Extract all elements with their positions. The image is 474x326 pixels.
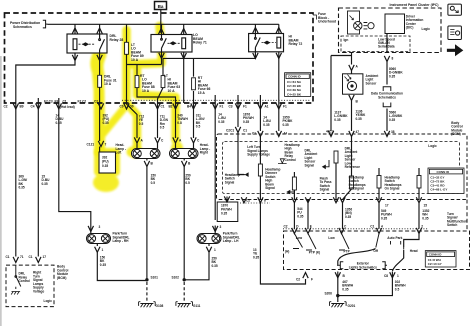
relay U3 HI BEAM Relay 72 bbox=[249, 34, 284, 52]
wire LO relay output bus bbox=[127, 52, 162, 65]
svg-text:C2: C2 bbox=[4, 105, 8, 109]
svg-text:1: 1 bbox=[214, 248, 216, 252]
svg-text:F1: F1 bbox=[220, 105, 224, 109]
wire to switch E bbox=[307, 199, 309, 229]
svg-text:C2: C2 bbox=[296, 278, 300, 282]
highlight DRL relay output to fuse 31 to label 392 bbox=[96, 50, 101, 152]
exterior lights schematics brackets bbox=[339, 262, 388, 269]
svg-text:44C2: 44C2 bbox=[326, 130, 334, 134]
svg-text:B9: B9 bbox=[20, 105, 24, 109]
svg-text:Park/TurnSignal/DRLLamp - LH: Park/TurnSignal/DRLLamp - LH bbox=[223, 232, 240, 244]
svg-text:F: F bbox=[311, 278, 313, 282]
wire DRL relay feed legs bbox=[75, 24, 100, 34]
svg-text:C0: C0 bbox=[120, 105, 124, 109]
svg-text:C2: C2 bbox=[94, 99, 98, 103]
BCM to switch right boundary dashed joiner bbox=[466, 200, 468, 232]
svg-text:C1=8 WHC2=10 GY: C1=8 WHC2=10 GY bbox=[428, 258, 442, 266]
BCM small triangle left turn supply bbox=[278, 159, 287, 164]
svg-text:2: 2 bbox=[421, 224, 423, 228]
svg-text:8: 8 bbox=[392, 57, 394, 61]
svg-text:CONN ID: CONN ID bbox=[429, 253, 443, 257]
lamp left headlamp bbox=[132, 149, 161, 159]
fuse F5 RT HI BEAM Fuse 66 bbox=[192, 78, 196, 90]
wire 1876 PK/WH headlamp switch signal bbox=[238, 95, 244, 175]
fuse block underhood tie mark bbox=[313, 15, 316, 20]
chevrons switch bottom exits bbox=[303, 273, 308, 279]
svg-text:Low: Low bbox=[328, 236, 335, 240]
icon black arrow bbox=[447, 44, 463, 56]
highlight blob around 392 label box bbox=[94, 148, 120, 176]
svg-text:C1: C1 bbox=[161, 105, 165, 109]
BCM pin headlamp switch off signal bbox=[377, 176, 381, 189]
wire IPC serial data bbox=[386, 30, 388, 131]
svg-text:F2 C3: F2 C3 bbox=[44, 99, 53, 103]
svg-text:7: 7 bbox=[105, 143, 107, 147]
fuse block connector dotted line bbox=[122, 99, 311, 101]
chevrons BCM bottom exits bbox=[241, 197, 246, 203]
chevrons park lamp terminals bbox=[88, 226, 93, 232]
switch contact Low D bbox=[293, 234, 303, 249]
wire LT HI beam fuse column to left headlamp C bbox=[158, 58, 164, 148]
BCM pin headlamp switch on signal bbox=[417, 176, 421, 189]
highlight RT LO fuse column to right headlamp bbox=[137, 66, 176, 140]
svg-text:F1: F1 bbox=[283, 105, 287, 109]
wire 14 L-BU headlamp high beam relay control bbox=[260, 95, 305, 284]
wire 14 L-BU park lamp feed to LH park lamp bbox=[214, 95, 216, 234]
svg-text:C1: C1 bbox=[63, 99, 67, 103]
wire 1352 to switch 2 bbox=[418, 168, 420, 229]
svg-text:4: 4 bbox=[381, 224, 383, 228]
svg-text:17: 17 bbox=[43, 255, 47, 259]
BCM bottom aux dotted line bbox=[240, 202, 270, 204]
svg-text:Instrument Panel Cluster (IPC): Instrument Panel Cluster (IPC) bbox=[390, 3, 439, 7]
junction S102 bbox=[183, 278, 186, 281]
ground G201 bbox=[330, 302, 347, 308]
svg-text:HeadlampSwitchHeadlampsOn Sign: HeadlampSwitchHeadlampsOn Signal bbox=[385, 176, 402, 191]
wire HI relay coil to BCM 44 bbox=[278, 52, 280, 131]
ground G201 stub bbox=[337, 296, 339, 302]
svg-text:Logic: Logic bbox=[422, 27, 431, 31]
highlight LT LO fuse column down to left headlamp bbox=[127, 30, 138, 147]
svg-text:Head: Head bbox=[410, 249, 418, 253]
svg-text:8: 8 bbox=[264, 199, 266, 203]
highlight LO beam relay output leg bbox=[127, 26, 162, 65]
svg-text:B4: B4 bbox=[187, 105, 191, 109]
IPC low speed GMLAN serial data inner dashed box bbox=[341, 36, 410, 52]
icon nav box 1 bbox=[448, 4, 462, 15]
svg-text:F2 C2: F2 C2 bbox=[78, 99, 87, 103]
svg-text:C8: C8 bbox=[384, 274, 388, 278]
svg-text:C4: C4 bbox=[31, 105, 35, 109]
fuse F1 DRL Fuse 31 bbox=[98, 75, 102, 87]
svg-text:S206: S206 bbox=[325, 292, 333, 296]
transistor DRL relay control driver bbox=[11, 265, 21, 294]
svg-text:3: 3 bbox=[99, 225, 101, 229]
chevron 1870 label exit bbox=[224, 196, 229, 202]
wire park lamp feed to RH park lamp bbox=[59, 98, 91, 234]
fuse F4 LT HI BEAM Fuse 63 bbox=[161, 76, 165, 88]
conn id table BCM bbox=[428, 168, 464, 194]
svg-text:Auto Park: Auto Park bbox=[387, 236, 402, 240]
svg-text:C1: C1 bbox=[370, 224, 374, 228]
switch contact Low E bbox=[306, 234, 316, 251]
svg-text:3: 3 bbox=[220, 225, 222, 229]
switch auto park ticks bbox=[391, 241, 404, 250]
wire LT LO beam fuse column to left headlamp A bbox=[127, 24, 138, 148]
BCM output arrow high beam relay bbox=[286, 190, 294, 195]
svg-text:71: 71 bbox=[20, 255, 24, 259]
boxed label 1870 continuation bbox=[217, 202, 238, 222]
svg-text:C2: C2 bbox=[284, 224, 288, 228]
svg-text:A1: A1 bbox=[265, 105, 269, 109]
fuse F3 RT LO BEAM Fuse 88 bbox=[135, 76, 139, 88]
BCM input arrow headlamp switch signal bbox=[238, 170, 249, 177]
svg-text:F1: F1 bbox=[243, 105, 247, 109]
high beam indicator bbox=[348, 11, 375, 34]
svg-text:PTP (K): PTP (K) bbox=[309, 251, 320, 255]
wire B+ power feed line bbox=[48, 23, 279, 25]
ground G111 bbox=[176, 302, 193, 308]
junction S206 bbox=[336, 294, 339, 297]
wire left headlamp B to S101 bbox=[146, 159, 148, 280]
svg-text:1: 1 bbox=[102, 248, 104, 252]
ground G108 bbox=[139, 302, 156, 308]
svg-text:C2: C2 bbox=[246, 199, 250, 203]
wire right turn signal supply to BCM C1-17 bbox=[37, 98, 39, 257]
chevron C2C1 inline bbox=[235, 127, 240, 133]
svg-text:C121: C121 bbox=[87, 143, 95, 147]
chevrons headlamp terminals bbox=[134, 137, 139, 143]
fuse F2 LT LO BEAM Fuse 89 bbox=[125, 42, 129, 54]
relay U2 LO BEAM Relay 71 bbox=[151, 35, 192, 53]
data comm brackets bbox=[383, 87, 391, 107]
BCM pin flash to pass bbox=[334, 151, 338, 163]
svg-text:C1: C1 bbox=[252, 132, 256, 136]
svg-text:C1: C1 bbox=[6, 255, 10, 259]
scan edge artifact bbox=[0, 56, 2, 326]
svg-text:47: 47 bbox=[356, 130, 360, 134]
wire 549 PU/WH to switch 4 bbox=[378, 168, 380, 229]
svg-text:D0: D0 bbox=[130, 105, 134, 109]
svg-text:G201: G201 bbox=[348, 304, 356, 308]
svg-text:Low: Low bbox=[296, 236, 303, 240]
ground G111 dashed drop bbox=[183, 282, 185, 301]
wire Ba drop to LO beam relay bbox=[160, 10, 162, 34]
svg-text:C1=64 NAC2=46 BKC3=39 NAC4=25: C1=64 NAC2=46 BKC3=39 NAC4=25 BK bbox=[287, 80, 302, 96]
wire flash to pass pin stub bbox=[335, 163, 337, 200]
ground G108 dashed drop bbox=[146, 282, 148, 301]
Ba page reference box bbox=[155, 2, 167, 10]
svg-text:HeadlampSwitchHeadlampsOff Sig: HeadlampSwitchHeadlampsOff Signal bbox=[349, 176, 366, 191]
turn signal multifunction switch dashed box bbox=[284, 231, 470, 270]
chevrons sensor A B and IPC 8 bbox=[349, 65, 354, 71]
svg-text:Ba: Ba bbox=[158, 4, 164, 9]
svg-text:C1: C1 bbox=[335, 199, 339, 203]
wire HI relay output bus bbox=[163, 52, 255, 59]
lamp right headlamp bbox=[170, 149, 199, 159]
power distribution bracket bbox=[43, 20, 48, 28]
svg-text:38: 38 bbox=[391, 130, 395, 134]
body control module BCM dashed box bbox=[217, 134, 468, 200]
switch contact PTP C bbox=[339, 234, 349, 251]
svg-text:E: E bbox=[310, 224, 312, 228]
wire RH park lamp return bbox=[97, 244, 147, 281]
svg-text:(Hot lead): (Hot lead) bbox=[60, 105, 75, 109]
chevrons BCM top row bbox=[258, 131, 263, 137]
svg-text:S102: S102 bbox=[172, 276, 180, 280]
chevrons relay outputs bbox=[72, 55, 77, 61]
svg-text:CONN ID: CONN ID bbox=[437, 170, 451, 174]
svg-text:1: 1 bbox=[397, 274, 399, 278]
svg-text:Logic: Logic bbox=[428, 144, 437, 148]
svg-text:CONN ID: CONN ID bbox=[288, 75, 302, 79]
boxed label 392 PU continuation bbox=[99, 152, 116, 173]
power distribution / underhood fuse block dashed box bbox=[5, 13, 314, 103]
DIC box bbox=[385, 14, 405, 34]
wire RT LO beam fuse column to right headlamp A bbox=[137, 65, 176, 149]
svg-text:C3: C3 bbox=[229, 105, 233, 109]
svg-text:Ign: Ign bbox=[344, 38, 349, 42]
BCM pin high beam relay control bbox=[292, 177, 296, 190]
BCM pin headlamps off bbox=[350, 176, 354, 189]
wire LO relay feed legs bbox=[162, 24, 184, 34]
wire right headlamp B to S102 bbox=[183, 159, 185, 280]
conn id table fuse block bbox=[285, 73, 311, 97]
lamp park/turn RH bbox=[87, 234, 111, 244]
BCM logic inner dashed box bbox=[223, 142, 460, 194]
ambient light sensor box bbox=[343, 74, 363, 94]
svg-text:C1: C1 bbox=[29, 255, 33, 259]
wire head contact to exit 1 bbox=[339, 250, 404, 296]
chevron C121 inline bbox=[98, 141, 103, 147]
svg-text:B2: B2 bbox=[169, 105, 173, 109]
svg-text:Logic: Logic bbox=[44, 299, 53, 303]
icon nav box 2 bbox=[448, 26, 462, 40]
svg-text:C1: C1 bbox=[243, 129, 247, 133]
switch contact Off 4 bbox=[376, 234, 379, 248]
lamp park/turn LH bbox=[197, 234, 221, 244]
chevrons relay feed legs bbox=[72, 28, 77, 34]
wire HI relay feed legs bbox=[255, 24, 278, 33]
wire 1356 to switch C bbox=[342, 137, 352, 235]
conn id table switch bbox=[425, 251, 456, 267]
wire DRL relay switch output through fuse 31 (392 PU) bbox=[99, 53, 101, 156]
instrument panel cluster IPC dashed box bbox=[339, 8, 442, 53]
svg-text:G111: G111 bbox=[193, 304, 201, 308]
wire LO relay coil leg down bbox=[183, 52, 185, 103]
svg-text:15: 15 bbox=[424, 204, 428, 208]
wire DRL relay coil output to BCM C1-71 bbox=[16, 53, 75, 257]
svg-text:17: 17 bbox=[385, 204, 389, 208]
BCM lower-left dashed box bbox=[6, 265, 54, 307]
svg-text:C2C1: C2C1 bbox=[226, 129, 234, 133]
highlight right headlamp terminal bbox=[171, 141, 183, 157]
wire LH park lamp return bbox=[184, 244, 209, 280]
svg-text:Park/TurnSignal/DRLLamp - RH: Park/TurnSignal/DRLLamp - RH bbox=[113, 232, 130, 244]
relay U1 DRL Relay 28 bbox=[67, 34, 107, 53]
BCM pin headlamp dimmer bbox=[258, 164, 262, 176]
wire 544 PU to switch D bbox=[293, 172, 295, 234]
svg-text:44: 44 bbox=[284, 132, 288, 136]
svg-text:F9: F9 bbox=[55, 99, 59, 103]
svg-text:PTP: PTP bbox=[344, 250, 351, 254]
highlight left headlamp terminal bbox=[127, 146, 144, 158]
chevrons BCM C1 bottom left bbox=[13, 257, 18, 263]
wire RT HI beam fuse column to right headlamp C bbox=[193, 58, 195, 148]
svg-text:(H): (H) bbox=[285, 250, 289, 254]
svg-text:S101: S101 bbox=[151, 276, 159, 280]
wire switch 2 to Head contact bbox=[404, 234, 419, 248]
wire left turn signal lamps supply to 1870 label box bbox=[226, 197, 228, 203]
BCM input arrow DRL ambient light sensor signal bbox=[322, 160, 329, 169]
wire off contact to exit B bbox=[338, 249, 376, 296]
svg-text:G108: G108 bbox=[156, 304, 164, 308]
switch top connector dotted line bbox=[283, 228, 428, 230]
wire IPC to ambient light sensor and BCM 44C2 bbox=[331, 53, 352, 132]
junction S101 bbox=[145, 278, 148, 281]
chevrons fuse block bottom exits bbox=[13, 103, 18, 109]
chevrons switch top entries bbox=[292, 228, 297, 234]
